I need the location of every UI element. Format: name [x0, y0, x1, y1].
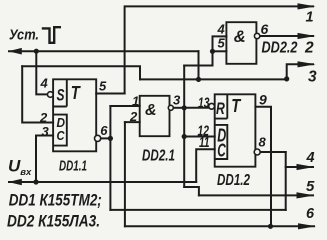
wire pin6 bus to wire2 — [109, 106, 111, 210]
arrowhead 3 — [298, 61, 316, 67]
inverter circle pin6 DD1.1 — [95, 135, 101, 141]
svg-text:8: 8 — [259, 135, 267, 150]
wire D1 input branch — [22, 66, 53, 122]
svg-text:11: 11 — [199, 135, 210, 151]
wire set riser — [198, 51, 200, 79]
wire pin13 R2 — [184, 107, 208, 109]
arrowhead left Uvx — [8, 179, 22, 186]
wire pin6 to junction — [101, 137, 111, 139]
svg-text:&: & — [234, 28, 246, 46]
svg-text:5: 5 — [218, 36, 226, 51]
wire input Uvx horizontal — [9, 181, 196, 183]
wire DD2.1 output — [173, 107, 184, 109]
inverter circle pin8 DD1.2 — [254, 149, 260, 155]
svg-text:T: T — [71, 83, 82, 103]
flip-flop DD1.2 box — [215, 94, 256, 166]
wire DD2.2 pin4 — [213, 36, 227, 51]
svg-text:1: 1 — [132, 93, 139, 108]
gate DD2.1 box — [140, 96, 170, 136]
inverter circle R input DD1.2 — [209, 103, 215, 109]
wire pin8 vertical — [285, 152, 287, 210]
svg-text:DD2.1: DD2.1 — [142, 148, 175, 165]
wire pin2 DD2.1 — [125, 121, 140, 123]
svg-text:DD1 К155ТМ2;: DD1 К155ТМ2; — [9, 192, 102, 210]
svg-text:5: 5 — [306, 178, 315, 195]
svg-text:6: 6 — [100, 123, 108, 138]
wire pin8 output — [260, 151, 285, 153]
wire bus DD2.1 out vertical — [183, 66, 185, 188]
svg-text:2: 2 — [129, 109, 138, 124]
wire C2 riser to pin 11 — [196, 149, 215, 182]
svg-text:2: 2 — [304, 40, 314, 57]
wire pin5 Q1 — [96, 93, 124, 95]
wire node-66 horizontal — [22, 66, 140, 79]
wire C1 input branch — [36, 136, 53, 183]
svg-text:DD1.2: DD1.2 — [217, 172, 250, 189]
wire top Q1 to arrow 1 — [125, 6, 313, 93]
wire H1 bus to DD2.2 inputs — [184, 65, 212, 67]
junction dot bus pin13 — [182, 105, 187, 110]
junction dot pin9 on wire3 — [268, 224, 273, 229]
arrowhead 4 — [297, 164, 315, 170]
wire H2 to arrow 3 — [140, 64, 313, 79]
svg-text:T: T — [231, 96, 242, 116]
junction dot set/S — [34, 49, 39, 54]
svg-text:9: 9 — [259, 91, 267, 107]
svg-text:C: C — [217, 140, 226, 160]
wire pin1 DD2.1 — [110, 105, 139, 107]
wire wire3 from pin2 riser to arrow 6 — [125, 225, 314, 227]
svg-text:13: 13 — [198, 96, 210, 112]
arrowhead 5 — [297, 192, 315, 198]
junction dot pin6 — [108, 136, 113, 141]
svg-text:DD2.2: DD2.2 — [262, 40, 298, 57]
junction dot set riser on H2 — [196, 77, 201, 82]
svg-text:4: 4 — [217, 22, 226, 37]
inverter circle DD2.1 output — [168, 105, 173, 110]
svg-text:4: 4 — [40, 76, 49, 91]
flip-flop DD1.1 box — [53, 79, 96, 151]
svg-text:6: 6 — [306, 206, 315, 222]
wire bus jog to wire1 — [184, 187, 199, 195]
svg-text:2: 2 — [39, 110, 48, 125]
svg-text:DD1.1: DD1.1 — [59, 159, 87, 175]
svg-text:3: 3 — [308, 68, 317, 85]
svg-text:Уст.: Уст. — [9, 27, 39, 44]
arrowhead 6 — [298, 223, 316, 229]
svg-text:4: 4 — [306, 150, 315, 166]
inverter circle DD2.2 output — [254, 33, 259, 38]
pulse symbol — [42, 27, 61, 43]
wire pin12 D2 — [184, 136, 215, 138]
svg-text:1: 1 — [306, 9, 314, 25]
svg-text:&: & — [145, 102, 157, 119]
junction dot Uvx — [33, 179, 38, 184]
wire wire2 from pin6 — [110, 209, 285, 211]
svg-text:6: 6 — [261, 21, 269, 37]
wire pin2 DD2.1 feedback riser — [124, 122, 126, 226]
wire set horizontal — [9, 50, 199, 52]
svg-text:5: 5 — [99, 79, 107, 94]
svg-text:DD2 К155ЛА3.: DD2 К155ЛА3. — [7, 213, 100, 231]
arrowhead 1 — [298, 3, 316, 9]
wire DD2.2 output to arrow 2 — [260, 35, 313, 37]
inverter circle S input DD1.1 — [48, 92, 54, 98]
wire DD2.2 input riser — [212, 51, 214, 65]
svg-text:3: 3 — [173, 92, 181, 107]
svg-text:C: C — [57, 128, 66, 143]
gate DD2.2 box — [226, 22, 256, 64]
junction dot bus pin12 — [182, 134, 187, 139]
wire DD2.2 pin5 — [213, 50, 227, 52]
junction dot arrow3 corner — [284, 76, 289, 81]
wire arrow 4 branch — [286, 166, 313, 168]
wire S-branch to pin4 — [36, 51, 47, 94]
arrowhead 2 — [298, 33, 316, 39]
svg-text:3: 3 — [42, 124, 50, 139]
svg-text:S: S — [57, 86, 65, 105]
svg-text:Uвх: Uвх — [8, 157, 32, 179]
svg-text:R: R — [216, 100, 225, 118]
arrowhead left set — [8, 48, 22, 55]
junction dot DD2.2 pins — [210, 49, 215, 54]
wire pin9 Q2 — [255, 107, 271, 227]
wire wire1 to arrow 5 — [199, 194, 313, 196]
